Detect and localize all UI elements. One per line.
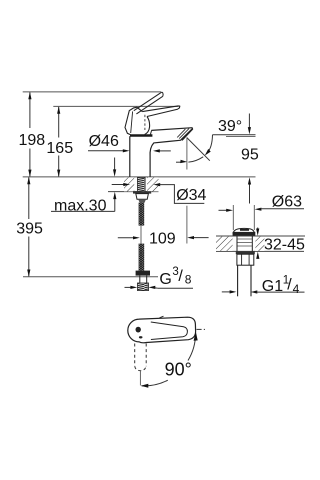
lever pivot dot [136, 327, 141, 333]
svg-text:Ø63: Ø63 [272, 193, 302, 210]
svg-text:39°: 39° [218, 118, 242, 135]
raised handle [134, 93, 161, 111]
lowered handle [142, 106, 178, 112]
198 dimension line [29, 92, 31, 176]
drain pipe [237, 265, 239, 296]
svg-text:/: / [178, 268, 183, 285]
drain deck lines [216, 235, 305, 237]
svg-text:8: 8 [185, 272, 192, 286]
Ø34 dimension + leader [112, 184, 125, 186]
counter bottom line (faucet deck) [108, 191, 159, 193]
svg-text:95: 95 [241, 147, 259, 164]
svg-text:165: 165 [46, 140, 73, 157]
165 reference line [53, 105, 178, 107]
bottom reference line (395 level) [23, 276, 158, 278]
top reference line (198 level) [23, 91, 161, 93]
39 degree spray diagonal [187, 138, 210, 161]
threaded shank [138, 177, 146, 199]
G3/8 tube [139, 276, 141, 283]
lever small dot [139, 336, 143, 338]
svg-text:32-45: 32-45 [264, 237, 305, 254]
aerator face (thick) [180, 127, 193, 140]
lever handle inner edge [151, 322, 188, 340]
39 degree leader arc [207, 135, 212, 153]
Ø63 arrows [219, 209, 228, 211]
svg-text:G1: G1 [262, 278, 283, 295]
svg-text:/: / [287, 277, 292, 294]
lever handle top view outline [128, 317, 196, 343]
svg-text:4: 4 [293, 282, 300, 296]
Ø63 extension lines [232, 205, 234, 230]
nut [136, 194, 149, 200]
G3/8 connector [136, 271, 150, 276]
32-45 arrows [257, 228, 259, 231]
G1 1/4 arrows + underline [222, 291, 231, 293]
label G 3/8 thread [159, 266, 191, 288]
svg-text:198: 198 [19, 132, 46, 149]
hose fitting [138, 199, 146, 202]
109 dimension [118, 237, 134, 239]
label G 1 1/4 thread [262, 275, 300, 297]
braided hose upper [139, 203, 145, 226]
Ø46 dimension [88, 150, 124, 152]
spout vertical extension line [186, 138, 188, 170]
dashed rotated handle position [135, 344, 147, 371]
svg-text:Ø46: Ø46 [89, 133, 119, 150]
drain flange dome [233, 228, 254, 233]
extension line below dashed handle [139, 371, 141, 386]
395 dimension line [28, 177, 30, 276]
top edge tick [160, 316, 164, 318]
hub outline [125, 107, 142, 135]
counter top line [23, 176, 256, 178]
G3/8 thread end [138, 283, 149, 291]
faucet deck hatch right [147, 177, 159, 191]
spout top line [151, 128, 192, 131]
95 dimension [248, 114, 250, 129]
hidden cartridge line [144, 115, 146, 132]
39 degree underline and second line [212, 134, 255, 136]
svg-text:109: 109 [149, 230, 176, 247]
hub base thick line [130, 134, 152, 136]
hose centerline at break [140, 226, 142, 244]
drain nut [237, 254, 254, 265]
max.30 dimension [114, 158, 116, 171]
faucet body [129, 136, 131, 177]
svg-text:90°: 90° [165, 359, 192, 379]
drain gasket [236, 251, 255, 254]
svg-text:Ø34: Ø34 [176, 187, 206, 204]
washer [133, 191, 151, 193]
faucet deck hatch left [124, 177, 134, 191]
90 degree arc [188, 334, 196, 361]
drain body through deck [236, 236, 238, 251]
165 dimension line [58, 107, 60, 176]
svg-text:395: 395 [16, 221, 43, 238]
drain deck hatch [216, 237, 233, 251]
braided hose lower [139, 244, 145, 271]
svg-text:G: G [159, 271, 171, 288]
G 3/8 arrows + underline [125, 286, 132, 288]
svg-text:max.30: max.30 [54, 198, 107, 215]
dash-dot mark right of lever [197, 328, 202, 330]
